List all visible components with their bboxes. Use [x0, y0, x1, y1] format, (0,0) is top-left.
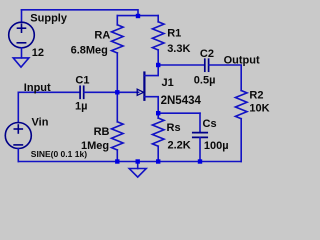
node dot Cs bottom [198, 159, 202, 163]
svg-text:6.8Meg: 6.8Meg [71, 44, 108, 56]
svg-text:0.5µ: 0.5µ [194, 75, 216, 87]
wire Vin bottom stub [17, 149, 19, 162]
wire Vin top stub [17, 92, 19, 122]
node dot Rs bottom [156, 159, 160, 163]
resistor RB lead top [116, 92, 118, 122]
capacitor C1 plates [80, 86, 84, 98]
wire C1 to gate node [84, 91, 117, 93]
wire Cs bottom to rail [199, 138, 201, 162]
svg-text:3.3K: 3.3K [167, 43, 190, 55]
svg-text:Vin: Vin [32, 117, 49, 129]
resistor RB zigzag [112, 122, 124, 150]
resistor Rs zigzag [152, 118, 164, 146]
minus sign of Supply [17, 42, 25, 44]
svg-text:C2: C2 [200, 48, 214, 60]
minus sign of Vin [14, 144, 22, 146]
wire drain to C2 [158, 64, 204, 66]
capacitor Cs plates [193, 133, 207, 138]
resistor R2 zigzag [235, 91, 247, 119]
svg-text:Cs: Cs [203, 118, 217, 130]
transistor J1 source lead [145, 97, 158, 114]
wire R2 bottom to rail [240, 119, 242, 162]
capacitor C2 plates [205, 59, 209, 71]
wire RB bottom to rail [116, 150, 118, 162]
transistor J1 drain lead [145, 65, 158, 76]
resistor RA zigzag [112, 25, 124, 53]
svg-text:R1: R1 [167, 28, 181, 40]
wire C2 to output corner [209, 65, 241, 91]
svg-text:SINE(0 0.1 1k): SINE(0 0.1 1k) [31, 149, 87, 159]
svg-text:Input: Input [24, 82, 51, 94]
voltage source Vin circle [5, 123, 31, 149]
resistor R1 lead top [157, 16, 159, 22]
plus sign of Vin [14, 125, 22, 133]
wire supply top stub [21, 10, 23, 22]
wire top rail [22, 10, 139, 16]
node dot RB bottom [115, 159, 119, 163]
wire supply bottom stub [21, 48, 23, 58]
wire RA bottom to gate node [116, 53, 118, 92]
wire R1 bottom to drain node [157, 50, 159, 65]
wire gate [117, 91, 138, 93]
wire source node to Cs corner [158, 112, 200, 114]
node dot ground mid [136, 159, 140, 163]
transistor J1 gate arrow [137, 89, 143, 95]
svg-text:12: 12 [32, 47, 44, 59]
svg-text:Output: Output [224, 54, 260, 66]
wire ground stub mid [137, 162, 139, 169]
wire input horizontal [18, 91, 79, 93]
svg-text:1µ: 1µ [75, 101, 87, 113]
svg-text:100µ: 100µ [204, 140, 229, 152]
wire RA-R1 top row [117, 15, 158, 17]
wire bottom rail [18, 161, 241, 163]
svg-text:10K: 10K [249, 103, 269, 115]
node dot top rail junction [136, 14, 140, 18]
svg-text:Supply: Supply [30, 12, 68, 24]
svg-text:RA: RA [94, 30, 110, 42]
svg-text:J1: J1 [162, 77, 174, 89]
plus sign of Supply [18, 24, 26, 32]
svg-text:RB: RB [94, 126, 110, 138]
svg-text:2N5434: 2N5434 [161, 95, 202, 107]
svg-text:C1: C1 [75, 75, 89, 87]
ground mid [129, 169, 146, 178]
transistor J1 channel bar [143, 73, 145, 100]
node dot gate [115, 90, 119, 94]
svg-text:R2: R2 [249, 89, 263, 101]
svg-text:1Meg: 1Meg [81, 140, 109, 152]
resistor RA lead top [116, 16, 118, 25]
resistor R1 zigzag [152, 22, 164, 50]
node dot drain [156, 63, 160, 67]
ground under Supply [13, 58, 29, 67]
svg-text:2.2K: 2.2K [168, 140, 191, 152]
wire Rs bottom to rail [157, 146, 159, 161]
resistor Rs lead top [157, 113, 159, 118]
svg-text:Rs: Rs [167, 122, 181, 134]
wire down to Cs top plate [199, 113, 201, 132]
node dot source [156, 111, 160, 115]
voltage source Supply circle [9, 22, 35, 48]
